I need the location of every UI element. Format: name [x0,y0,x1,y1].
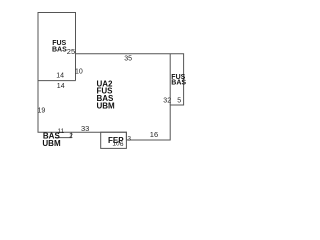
svg-text:5: 5 [177,98,181,105]
svg-text:16: 16 [150,130,158,139]
svg-text:10: 10 [112,141,120,148]
svg-text:14: 14 [56,73,64,80]
wall divider horizontal y=80.6 (14 ft) [38,80,76,82]
svg-text:3: 3 [127,136,131,143]
wall divider vertical x=75.5 (10 ft) [75,54,77,81]
svg-text:UBM: UBM [42,139,61,148]
building outline [38,13,184,141]
svg-text:2: 2 [69,132,73,139]
svg-text:BAS: BAS [52,46,67,53]
svg-text:UBM: UBM [97,102,116,111]
FEP porch box [101,132,127,148]
svg-text:19: 19 [38,107,46,114]
svg-text:32: 32 [163,98,171,105]
svg-text:BAS: BAS [171,79,186,86]
wall divider vertical x=170.2 (32 ft) [169,54,171,105]
svg-text:33: 33 [81,124,89,133]
svg-text:14: 14 [57,83,65,90]
svg-text:6: 6 [120,141,124,148]
svg-text:10: 10 [75,69,83,76]
svg-text:25: 25 [67,47,75,56]
bottom notch (2 ft jog) [55,132,71,137]
svg-text:35: 35 [124,55,132,62]
